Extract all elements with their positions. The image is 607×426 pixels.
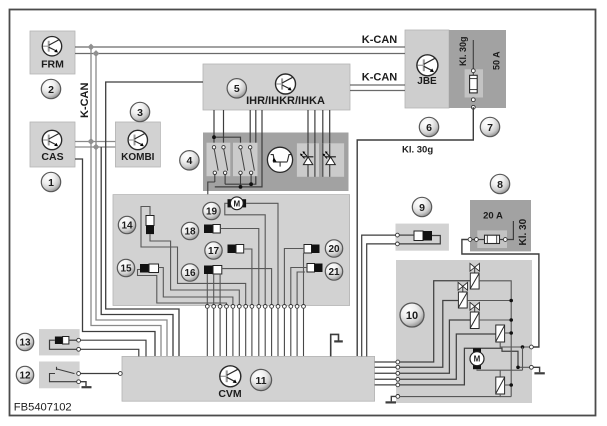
svg-text:5: 5 xyxy=(234,83,240,95)
relay E xyxy=(496,377,505,394)
triac box 1 xyxy=(297,143,319,177)
wire CVM to valve B xyxy=(375,301,459,368)
svg-text:16: 16 xyxy=(184,268,196,279)
fuse 20A symbol xyxy=(485,235,500,243)
KOMBI icon xyxy=(128,130,147,149)
svg-text:Kl. 30: Kl. 30 xyxy=(518,218,529,245)
svg-text:13: 13 xyxy=(19,338,31,349)
wire IHKA to relay K1 pin xyxy=(213,110,215,147)
wire relay K1 left pin exit to block below xyxy=(208,182,215,195)
pump motor M xyxy=(470,348,484,369)
relay K1 contact a xyxy=(212,146,218,182)
svg-text:K-CAN: K-CAN xyxy=(362,34,397,46)
junction dot relay E xyxy=(509,383,513,387)
wire 16 pin to terminal t1 xyxy=(206,274,208,305)
control unit KOMBI box xyxy=(115,122,160,167)
wire K-CAN pair FRM to JBE line 2 xyxy=(75,53,405,55)
badge 8 xyxy=(490,174,509,193)
control unit JBE box light part xyxy=(405,30,449,108)
junction diamond bus1 CAS xyxy=(88,138,95,145)
wire ground rail bottom of block10 xyxy=(400,394,501,397)
svg-text:7: 7 xyxy=(487,122,493,134)
badge 21 xyxy=(325,263,342,280)
sensor block middle xyxy=(113,195,350,306)
wire K-CAN pair FRM to JBE line 1 xyxy=(75,46,405,48)
wire sensor 15 left to terminal t4 xyxy=(138,270,227,305)
junction dot rail 2 xyxy=(239,185,243,189)
wire CVM to relay D xyxy=(375,334,496,379)
blower output stage circle xyxy=(267,147,292,172)
terminal block10 supply xyxy=(530,345,534,349)
terminal 12 lower xyxy=(77,380,81,384)
wire 9 upper lead xyxy=(399,234,414,236)
junction dot relay D xyxy=(509,331,513,335)
sensor 13 element xyxy=(55,337,69,345)
valve A xyxy=(470,263,479,289)
svg-text:KOMBI: KOMBI xyxy=(121,152,155,163)
wire IHKA to triac box 2 pin b xyxy=(329,110,331,143)
sensor 20 xyxy=(304,245,320,254)
wire IHKA to triac box 1 pin b xyxy=(314,110,316,177)
wire 13 upper drop to CVM xyxy=(81,340,147,356)
ground flag above CVM xyxy=(331,334,343,356)
svg-text:K-CAN: K-CAN xyxy=(362,71,397,83)
wire 21 left to terminal t14 xyxy=(291,268,307,305)
wire CVM to valve C xyxy=(375,320,471,373)
relay K1 contact b xyxy=(222,146,228,185)
svg-text:50 A: 50 A xyxy=(492,51,502,70)
badge 4 xyxy=(180,151,199,170)
wire 16 right to terminal t11 xyxy=(222,269,272,305)
wire CAS to KOMBI line 1 xyxy=(75,141,115,143)
wire IHKA to triac box 2 pin a xyxy=(322,110,324,177)
svg-text:JBE: JBE xyxy=(417,76,437,87)
terminal block10 in3 xyxy=(396,371,400,375)
svg-text:K-CAN: K-CAN xyxy=(79,83,91,118)
terminal block10 in2 xyxy=(396,365,400,369)
wire IHKA to relay rail 2 xyxy=(215,110,262,187)
fuse 20A holder box xyxy=(477,230,507,248)
junction diamond bus2 top xyxy=(93,50,100,57)
ground for switch 12 xyxy=(81,382,92,388)
terminal CVM left edge xyxy=(118,372,122,376)
relay E right link xyxy=(505,384,512,386)
valve A return wire xyxy=(479,281,511,397)
wire IHKA left lead down to CVM xyxy=(106,82,203,356)
wire IHKA to relay K2 pin xyxy=(249,110,251,147)
wire 13 upper to CVM xyxy=(69,339,77,341)
terminal fuse 8 left edge xyxy=(468,238,472,242)
svg-text:FB5407102: FB5407102 xyxy=(14,401,72,413)
valve C xyxy=(470,302,479,328)
wire CAS to KOMBI line 2 xyxy=(75,146,115,148)
svg-text:M: M xyxy=(233,199,240,208)
relay D xyxy=(496,325,505,342)
valve B return wire xyxy=(467,300,511,302)
junction dot rail 1 xyxy=(249,182,253,186)
svg-text:Kl. 30g: Kl. 30g xyxy=(402,145,433,156)
badge 9 xyxy=(412,197,431,216)
wire 18 to terminal t9 xyxy=(220,229,258,305)
svg-text:4: 4 xyxy=(186,155,192,167)
svg-text:14: 14 xyxy=(121,221,133,232)
terminal JBE block edge xyxy=(471,105,475,109)
wire relay D to supply terminal xyxy=(500,342,529,347)
wire M19 left to terminal t10 xyxy=(225,203,265,304)
svg-text:M: M xyxy=(474,355,481,364)
wire IHKA to relay K1 pin 2 xyxy=(223,110,225,147)
badge 3 xyxy=(130,102,149,121)
wire 16 pin to terminal t3 xyxy=(219,274,221,305)
svg-text:12: 12 xyxy=(19,371,31,382)
junction dot valve B return xyxy=(509,299,513,303)
wire motor terminal line xyxy=(518,366,530,368)
badge 7 xyxy=(480,117,499,136)
wire fuse top lead xyxy=(472,40,474,75)
wire 17 to terminal t8 xyxy=(244,249,252,305)
relay K2 contact b xyxy=(249,146,255,185)
wire M19 right to terminal t12 xyxy=(246,203,278,304)
junction diamond bus2 CAS xyxy=(93,144,100,151)
wire IHKA to triac box 1 pin a xyxy=(307,110,309,143)
wire 13 lower loop to terminal xyxy=(50,340,78,349)
wire 9 lower down to CVM xyxy=(367,244,396,357)
JBE icon xyxy=(417,55,438,76)
sensor 18 xyxy=(204,225,220,234)
terminal block10 in4 xyxy=(396,377,400,381)
svg-text:2: 2 xyxy=(48,84,54,96)
wire motor bottom to relay E xyxy=(477,369,523,370)
wire fuse 8 to Kl30 stub xyxy=(500,239,504,241)
svg-text:20 A: 20 A xyxy=(483,211,503,222)
terminal 13 lower xyxy=(77,347,81,351)
sensor 21 xyxy=(307,264,323,273)
wire motor bottom drop to relay E xyxy=(499,370,501,377)
wire CAS down to CVM xyxy=(75,159,155,356)
badge 2 xyxy=(41,79,60,98)
badge 12 xyxy=(16,366,33,383)
switch 12 symbol xyxy=(50,367,77,382)
FRM icon xyxy=(42,37,61,56)
JBE fuse dark part xyxy=(449,30,506,108)
wire sensor 14 bottom to terminal t6 xyxy=(150,234,239,304)
IHKA icon xyxy=(276,74,296,94)
sensor 14 xyxy=(146,216,154,235)
svg-text:20: 20 xyxy=(328,244,340,255)
junction dot relay feed xyxy=(212,135,216,139)
wire sensor 14 top to terminal t7 xyxy=(141,207,246,305)
svg-text:3: 3 xyxy=(137,107,143,119)
terminal 12 upper xyxy=(77,372,81,376)
terminal fuse 8 left inner xyxy=(475,238,479,242)
wire K-CAN bus drop 2 xyxy=(96,54,167,357)
switch block 12 xyxy=(39,362,80,389)
svg-text:15: 15 xyxy=(120,264,132,275)
badge 14 xyxy=(118,216,135,233)
wire branch bus to CVM xyxy=(101,147,173,356)
fuse F 50A holder box xyxy=(465,69,483,97)
terminal 13 upper xyxy=(77,338,81,342)
sensor 9 element xyxy=(414,231,432,241)
sensor 17 xyxy=(228,245,244,254)
relay box K2 xyxy=(233,143,258,177)
svg-text:IHR/IHKR/IHKA: IHR/IHKR/IHKA xyxy=(246,95,325,107)
badge 11 xyxy=(250,369,271,390)
CVM icon xyxy=(220,366,241,387)
badge 5 xyxy=(227,79,246,98)
control unit IHR/IHKR/IHKA box xyxy=(203,64,350,110)
wire motor top stub xyxy=(476,347,478,349)
badge 15 xyxy=(117,259,134,276)
svg-text:18: 18 xyxy=(184,227,196,238)
fuse block 8 xyxy=(470,200,531,251)
control unit CAS box xyxy=(30,122,75,167)
badge 19 xyxy=(203,202,220,219)
wire 20 pin to terminal t16 xyxy=(303,253,305,305)
wire CVM to valve A xyxy=(375,281,471,362)
terminal block10 in1 xyxy=(396,360,400,364)
wire CVM to pump motor xyxy=(375,348,518,385)
wire branch to relay K2 left pin xyxy=(214,137,241,147)
wire ground rail right part xyxy=(500,396,511,398)
badge 17 xyxy=(205,242,222,259)
wire fuse 8 leads xyxy=(472,239,485,241)
wire IHKA to relay rail 1 xyxy=(225,110,256,184)
junction dot motor line xyxy=(516,366,520,370)
wire 12 to CVM left edge xyxy=(81,373,119,375)
sensor block 13 xyxy=(39,329,80,355)
relay box K1 xyxy=(207,143,231,177)
triac box 2 symbol xyxy=(323,143,336,177)
wire K-CAN pair IHKA to JBE line 2 xyxy=(350,90,405,92)
relay and output stage block 4 xyxy=(203,133,349,192)
svg-text:Kl. 30g: Kl. 30g xyxy=(458,36,468,66)
wire 20A feed to hydraulic unit xyxy=(462,240,539,348)
badge 20 xyxy=(325,240,342,257)
CAS icon xyxy=(42,130,61,149)
wire 16 pin to terminal t2 xyxy=(213,274,215,305)
hydraulic unit block 10 xyxy=(396,260,532,403)
terminal block10 ground xyxy=(396,395,400,399)
badge 18 xyxy=(181,222,198,239)
triac box 2 xyxy=(322,143,344,177)
relay D right link xyxy=(505,332,512,334)
terminal fuse bottom xyxy=(471,98,475,102)
junction dot valve C return xyxy=(509,318,513,322)
terminal fuse top xyxy=(471,69,475,73)
badge 16 xyxy=(181,264,198,281)
svg-text:19: 19 xyxy=(206,207,218,218)
svg-text:6: 6 xyxy=(426,122,432,134)
terminal block10 right lower xyxy=(530,365,534,369)
wire supply branch down xyxy=(522,347,524,370)
wire 9 upper down to CVM xyxy=(362,235,396,356)
wire 13 lower drop to CVM xyxy=(81,349,139,356)
ground lead left of block10 xyxy=(386,396,397,402)
svg-text:1: 1 xyxy=(48,177,54,189)
junction dot supply xyxy=(521,345,525,349)
wire 9 lower loop xyxy=(399,236,440,244)
wire sensor 15 right to terminal t5 xyxy=(159,268,233,305)
svg-text:8: 8 xyxy=(497,179,503,191)
relay K2 contact a xyxy=(239,146,245,187)
wire K-CAN pair IHKA to JBE line 1 xyxy=(350,84,405,86)
fuse F 50A symbol xyxy=(470,75,478,93)
ground right of block10 xyxy=(533,367,545,373)
junction diamond bus1 top xyxy=(88,44,95,51)
terminal 9 upper xyxy=(396,233,400,237)
svg-text:17: 17 xyxy=(208,246,220,257)
motor M19 xyxy=(228,197,247,210)
triac box 1 symbol xyxy=(300,143,315,177)
svg-text:9: 9 xyxy=(419,202,425,214)
terminal 9 lower xyxy=(396,242,400,246)
svg-text:FRM: FRM xyxy=(41,59,64,71)
sensor 15 xyxy=(140,264,159,273)
valve B xyxy=(458,282,467,308)
control unit FRM box xyxy=(30,31,75,74)
svg-text:11: 11 xyxy=(255,375,266,387)
svg-text:21: 21 xyxy=(328,267,340,278)
svg-text:CAS: CAS xyxy=(41,151,63,163)
wire 20 left to terminal t13 xyxy=(284,249,304,305)
control unit CVM box xyxy=(122,356,375,401)
sensor block 9 xyxy=(396,224,449,251)
terminal block10 in5 xyxy=(396,383,400,387)
switch unit 16 xyxy=(204,266,222,275)
wire Kl30g from fuse to CVM xyxy=(357,107,473,356)
wire K-CAN bus drop 1 xyxy=(91,47,161,356)
wire 21 pin to terminal t15 xyxy=(297,272,305,305)
svg-text:CVM: CVM xyxy=(218,388,242,400)
wire Kl30 lead up xyxy=(507,221,513,240)
svg-text:10: 10 xyxy=(406,310,418,322)
badge 1 xyxy=(41,172,60,191)
badge 10 xyxy=(400,303,424,327)
valve C return wire xyxy=(479,319,511,321)
connector terminals t1-t16 xyxy=(205,305,305,357)
badge 6 xyxy=(419,117,438,136)
terminal fuse 8 right xyxy=(503,238,507,242)
badge 13 xyxy=(16,333,33,350)
